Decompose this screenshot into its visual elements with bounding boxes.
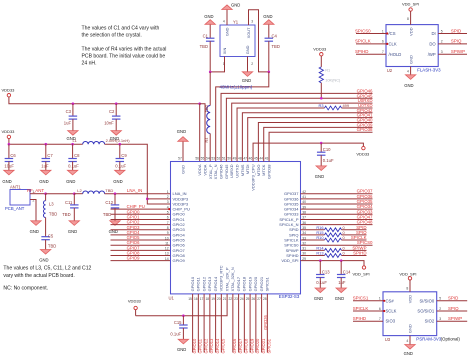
wire: VDD33 rail 2 right to U1 VDD3P3 — [105, 144, 171, 204]
svg-text:GPIO38: GPIO38 — [266, 164, 271, 179]
svg-text:FLASH-3V3: FLASH-3V3 — [417, 67, 441, 72]
node: C3 junction — [72, 102, 75, 105]
svg-text:(Optional): (Optional) — [441, 336, 461, 341]
node: C13 junction — [319, 259, 322, 262]
svg-text:GPIO26: GPIO26 — [263, 314, 268, 330]
wire+net label GPIO4 (U1 pin 9) — [111, 234, 171, 236]
svg-text:SPICS1: SPICS1 — [267, 338, 272, 353]
svg-text:46: 46 — [249, 157, 253, 161]
wire+net label SPID from U3 pin 5 — [437, 300, 468, 302]
svg-text:DO: DO — [429, 41, 436, 46]
svg-text:/WP: /WP — [428, 52, 436, 57]
svg-text:GPIO12: GPIO12 — [203, 338, 208, 354]
svg-text:17: 17 — [200, 297, 204, 301]
svg-text:VDD_SPI: VDD_SPI — [353, 271, 370, 276]
svg-text:GND: GND — [177, 129, 186, 134]
svg-text:40MHz(±10ppm): 40MHz(±10ppm) — [220, 85, 253, 90]
wire GPIO41 from U1 to net label — [248, 118, 373, 162]
svg-text:44: 44 — [259, 157, 263, 161]
svg-text:the selection of the crystal.: the selection of the crystal. — [82, 32, 142, 38]
svg-text:12: 12 — [165, 247, 169, 251]
wire: R4 to U1 XTAL_P — [209, 134, 211, 162]
node: VDD3P3 junction — [146, 198, 149, 201]
svg-text:8: 8 — [167, 226, 169, 230]
capacitor C5 — [41, 236, 50, 238]
svg-text:VDD33: VDD33 — [2, 129, 16, 134]
capacitor C14 — [340, 261, 342, 275]
resistor R3 499 — [325, 106, 342, 110]
wire: VDD_SPI to U2 VDD pin 8 — [410, 11, 412, 24]
wire GPIO47 from U1 pin 37 — [301, 218, 373, 220]
svg-text:GPIO14: GPIO14 — [213, 276, 218, 291]
power VDD33 (at C10) — [362, 146, 365, 149]
svg-text:/HOLD: /HOLD — [389, 52, 402, 57]
svg-text:VDDA: VDDA — [197, 164, 202, 175]
svg-text:SPICS1: SPICS1 — [353, 296, 369, 301]
svg-text:VDD: VDD — [408, 27, 413, 36]
capacitor C11 (shunt) — [73, 194, 75, 205]
node: U2 /CS pin dot — [386, 32, 388, 34]
svg-text:SIO2: SIO2 — [425, 319, 435, 324]
svg-text:3: 3 — [167, 200, 169, 204]
svg-text:GPIO13: GPIO13 — [207, 276, 212, 291]
svg-text:GPIO9: GPIO9 — [173, 258, 186, 263]
svg-text:22: 22 — [228, 297, 232, 301]
svg-text:28: 28 — [263, 297, 267, 301]
svg-text:SO/SIO1: SO/SIO1 — [417, 309, 434, 314]
svg-text:21: 21 — [223, 297, 227, 301]
svg-text:C8: C8 — [74, 153, 80, 158]
wire: VDD33 rail 2 left — [9, 139, 83, 145]
svg-text:GND: GND — [39, 258, 48, 263]
svg-text:27: 27 — [257, 297, 261, 301]
wire SPICS0 from U1 pin 32 — [301, 244, 373, 246]
svg-text:VDD_SPI: VDD_SPI — [402, 2, 419, 7]
wire: U1 VDDA pin 55 elbow — [200, 104, 205, 162]
svg-text:1: 1 — [167, 190, 169, 194]
svg-text:C5: C5 — [48, 234, 54, 239]
svg-text:10: 10 — [165, 236, 169, 240]
svg-text:GND: GND — [39, 179, 48, 184]
svg-text:C7: C7 — [47, 153, 53, 158]
ground (crystal pin2, down) — [242, 72, 252, 77]
capacitor C1 — [209, 24, 211, 38]
svg-text:GND: GND — [404, 83, 413, 88]
svg-text:10K(NC): 10K(NC) — [325, 77, 341, 82]
svg-text:GPIO13: GPIO13 — [209, 338, 214, 354]
svg-text:25: 25 — [246, 297, 250, 301]
wire VDD_SPI from U1 pin 29 — [301, 261, 365, 266]
svg-text:43: 43 — [265, 157, 269, 161]
svg-text:8: 8 — [407, 17, 409, 21]
svg-text:13: 13 — [165, 252, 169, 256]
node: C14 junction — [340, 259, 343, 262]
wire SPICLK from U1 pin 33 — [301, 239, 325, 241]
capacitor C2 — [115, 104, 117, 116]
svg-text:GPIO19: GPIO19 — [248, 276, 253, 291]
ground (U1 GND pin 57, up) — [182, 141, 184, 161]
svg-text:C4: C4 — [272, 34, 278, 39]
capacitor C8 — [72, 144, 74, 158]
svg-text:2: 2 — [439, 307, 441, 311]
wire GPIO33 from U1 pin 38 — [301, 213, 373, 215]
node: C2 junction — [115, 102, 118, 105]
wire U1 bottom pin 22 stub — [232, 294, 234, 353]
wire+net label SPICS1 to U3 pin 1 — [353, 300, 383, 302]
svg-text:VDDA: VDDA — [202, 164, 207, 175]
ground (C13) — [315, 288, 325, 293]
power VDD_SPI (U1) — [362, 266, 365, 269]
wire GPIO45 from U1 to net label — [226, 98, 372, 161]
svg-text:GND: GND — [2, 179, 11, 184]
svg-text:RF_ANT: RF_ANT — [27, 188, 44, 193]
svg-text:VDD33: VDD33 — [313, 46, 327, 51]
wire U1 bottom pin 15 stub — [192, 294, 194, 353]
node: R1 to GPIO45 junction — [320, 97, 323, 100]
svg-text:PSRAM-3V3: PSRAM-3V3 — [416, 336, 441, 341]
wire+net label SPIHD to U3 pin 7 — [353, 320, 383, 322]
svg-text:GPIO11: GPIO11 — [196, 276, 201, 291]
svg-text:SPICS1: SPICS1 — [265, 276, 270, 291]
inductor L1 — [83, 141, 105, 144]
ground (C11) — [69, 221, 79, 226]
svg-text:GPIO45: GPIO45 — [224, 164, 229, 179]
svg-text:GPIO18: GPIO18 — [244, 338, 249, 354]
svg-text:20: 20 — [217, 297, 221, 301]
wire SPIWP from U1 pin 31 — [301, 249, 325, 251]
wire: U1 VDD3P3_CPU to VDD33 — [253, 143, 363, 161]
wire: Y1 pin3 XOUT loop — [249, 10, 269, 72]
svg-text:SPIQ: SPIQ — [451, 39, 462, 44]
svg-text:TBD: TBD — [105, 188, 113, 193]
svg-text:SPICLK: SPICLK — [353, 306, 369, 311]
wire U0RXD from U1 to net label — [232, 103, 373, 161]
ground (C12) — [110, 221, 120, 226]
svg-text:TBD: TBD — [205, 104, 209, 112]
svg-text:GND: GND — [204, 14, 213, 19]
ground (C1 top, up) — [205, 20, 215, 25]
capacitor C12 (shunt) — [114, 194, 116, 205]
wire: Y1 pin2 to GND — [247, 57, 249, 72]
svg-text:GND: GND — [408, 55, 413, 64]
wire GPIO34 from U1 pin 39 — [301, 208, 373, 210]
IC U3 PSRAM box — [383, 292, 437, 336]
svg-text:50: 50 — [227, 157, 231, 161]
svg-text:SPIHD: SPIHD — [353, 251, 366, 256]
svg-text:TBD: TBD — [272, 44, 280, 49]
wire+net label SPICS0 to U2 pin 1 — [356, 33, 386, 35]
svg-text:XTAL_N: XTAL_N — [213, 164, 218, 179]
wire+net label GPIO8 (U1 pin 13) — [111, 255, 171, 257]
svg-text:C6: C6 — [10, 153, 16, 158]
svg-text:15: 15 — [188, 297, 192, 301]
svg-text:14: 14 — [165, 257, 169, 261]
node: U2 CLK pin dot — [386, 43, 388, 45]
svg-text:GPIO16: GPIO16 — [232, 338, 237, 354]
svg-text:C9: C9 — [121, 153, 127, 158]
wire+net label CHIP_PU (U1 pin 4) — [111, 208, 171, 210]
svg-text:CLK: CLK — [389, 41, 397, 46]
svg-text:7: 7 — [379, 317, 381, 321]
svg-text:GND: GND — [263, 14, 272, 19]
svg-text:L3: L3 — [49, 202, 54, 207]
capacitor C3 — [72, 104, 74, 116]
wire GPIO46 from U1 to net label — [221, 93, 372, 161]
svg-text:9: 9 — [167, 231, 169, 235]
svg-text:5: 5 — [441, 29, 443, 33]
capacitor C13 — [319, 261, 321, 275]
wire U0TXD from U1 to net label — [237, 108, 324, 162]
wire U1 bottom pin 16 stub — [197, 294, 199, 353]
svg-text:0.1uF: 0.1uF — [323, 158, 334, 163]
wire GPIO40 from U1 to net label — [258, 123, 372, 162]
wire GPIO38 from U1 to net label — [269, 132, 372, 161]
ground (C5) — [40, 250, 50, 255]
IC U1 ESP32-S3 box — [171, 162, 301, 294]
svg-text:XIN: XIN — [222, 48, 227, 55]
svg-text:18: 18 — [205, 297, 209, 301]
wire SPIHD from U1 pin 30 — [301, 255, 325, 257]
svg-text:R13: R13 — [316, 251, 323, 256]
wire+net label GPIO0 (U1 pin 5) — [111, 213, 171, 215]
svg-text:U3: U3 — [385, 337, 391, 342]
svg-text:MTMS: MTMS — [240, 164, 245, 176]
svg-text:C13: C13 — [322, 270, 330, 275]
wire+net label SPIWP from U3 pin 3 — [437, 320, 468, 322]
svg-text:GPIO18: GPIO18 — [242, 276, 247, 291]
wire: Y1 pin4 to GND — [226, 10, 228, 26]
svg-text:MTDI: MTDI — [245, 164, 250, 174]
wire U1 bottom pin 26 stub — [255, 294, 257, 353]
svg-text:54: 54 — [206, 157, 210, 161]
wire: Y1 pin1 XIN — [210, 57, 224, 72]
svg-text:CS#: CS# — [386, 298, 395, 303]
node: XOUT junction — [268, 71, 271, 74]
svg-text:TBD: TBD — [200, 44, 208, 49]
svg-text:2: 2 — [251, 62, 253, 66]
svg-text:GND: GND — [231, 3, 240, 8]
svg-text:0.1uF: 0.1uF — [170, 331, 181, 336]
ground (crystal pin4, up) — [222, 5, 232, 10]
node: U3 SCLK pin dot — [383, 310, 385, 312]
wire+net label SPIQ from U2 pin 2 — [438, 43, 467, 45]
wire U1 bottom pin 18 stub — [209, 294, 211, 353]
svg-text:6: 6 — [167, 216, 169, 220]
svg-text:Y1: Y1 — [233, 19, 239, 24]
svg-text:2: 2 — [167, 195, 169, 199]
svg-text:2: 2 — [441, 40, 443, 44]
wire: U1 VDD3P3 pin2 stub — [147, 198, 170, 200]
inductor L3 (shunt) — [45, 194, 47, 201]
svg-text:52: 52 — [217, 157, 221, 161]
svg-text:499: 499 — [343, 103, 350, 108]
capacitor C9 — [119, 144, 121, 158]
svg-text:U1: U1 — [169, 296, 175, 301]
svg-text:53: 53 — [211, 157, 215, 161]
svg-text:SIO3: SIO3 — [386, 319, 396, 324]
wire: U1 VDDA pin 56 stub — [199, 104, 201, 162]
svg-text:VDD3P3_CPU: VDD3P3_CPU — [250, 164, 255, 190]
ground (C14) — [336, 288, 346, 293]
wire U1 bottom pin 28 stub — [266, 294, 268, 353]
svg-text:49: 49 — [233, 157, 237, 161]
svg-text:GND: GND — [242, 78, 251, 83]
node: C8 junction — [71, 143, 74, 146]
svg-text:SI/SIO0: SI/SIO0 — [420, 298, 435, 303]
svg-text:GPIO20: GPIO20 — [255, 338, 260, 354]
svg-text:L2: L2 — [77, 188, 82, 193]
svg-text:ESP32-S3: ESP32-S3 — [279, 294, 300, 299]
svg-text:GND: GND — [180, 165, 185, 174]
svg-text:The values of C1 and C4 vary w: The values of C1 and C4 vary with — [82, 25, 160, 31]
node: CHIP_PU pin dot — [168, 208, 170, 210]
svg-text:R3: R3 — [319, 103, 324, 108]
svg-text:SPIHD: SPIHD — [353, 316, 366, 321]
svg-text:/CS: /CS — [389, 31, 396, 36]
wire+net label SPID from U2 pin 5 — [438, 33, 467, 35]
svg-text:GND: GND — [113, 179, 122, 184]
svg-text:GND: GND — [177, 347, 186, 352]
svg-text:LNA_IN: LNA_IN — [127, 188, 142, 193]
wire: VDD33 rail 1 — [9, 97, 200, 104]
ground (U3) — [405, 345, 415, 350]
svg-text:26: 26 — [251, 297, 255, 301]
node: L3 junction — [44, 192, 47, 195]
wire: C1 bottom to XIN junction — [209, 41, 211, 72]
svg-text:0.1uF: 0.1uF — [115, 164, 126, 169]
wire: XOUT to U1 XTAL_N — [216, 72, 269, 162]
svg-text:PCB board. The initial value c: PCB board. The initial value could be — [82, 53, 166, 59]
ground (ANT1) — [31, 221, 41, 226]
svg-text:TBD: TBD — [49, 212, 57, 217]
svg-text:R1: R1 — [325, 67, 330, 72]
svg-text:PCB_ANT: PCB_ANT — [5, 206, 25, 211]
svg-text:11: 11 — [165, 241, 169, 245]
svg-text:R10: R10 — [316, 235, 324, 240]
svg-text:56: 56 — [195, 157, 199, 161]
wire: U3 GND pin 4 to ground — [409, 336, 411, 345]
wire U1 bottom pin 25 stub — [249, 294, 251, 353]
wire SPIQ from U1 pin 34 — [301, 234, 325, 236]
svg-text:4: 4 — [407, 70, 409, 74]
svg-text:C2: C2 — [109, 109, 115, 114]
wire U1 bottom pin 27 stub — [261, 294, 263, 353]
svg-text:DI: DI — [432, 31, 436, 36]
svg-text:VDD_SPI: VDD_SPI — [399, 271, 416, 276]
wire VDD3P3_RTC elbow to VDD33 rail — [136, 294, 228, 316]
ground (U2) — [405, 75, 415, 80]
capacitor C4 — [268, 24, 270, 38]
svg-text:GND: GND — [66, 179, 75, 184]
svg-text:GND: GND — [225, 27, 230, 36]
svg-text:GPIO38: GPIO38 — [357, 127, 373, 132]
svg-text:4: 4 — [167, 205, 169, 209]
svg-text:1uF: 1uF — [64, 121, 72, 126]
crystal Y1 box — [220, 25, 255, 57]
wire: C11 to L2 — [74, 193, 82, 195]
svg-text:XTAL_32K_N: XTAL_32K_N — [230, 267, 235, 291]
node: C15 junction — [182, 314, 185, 317]
svg-text:6: 6 — [382, 40, 384, 44]
wire+net label GPIO1 (U1 pin 6) — [111, 218, 171, 220]
svg-text:VDD3P3_RTC: VDD3P3_RTC — [219, 265, 224, 291]
ground (C15) — [178, 339, 188, 344]
svg-text:GPIO20: GPIO20 — [253, 276, 258, 291]
node: C6 junction — [8, 143, 11, 146]
svg-text:GND: GND — [404, 351, 413, 355]
ground (C10) — [316, 166, 326, 171]
svg-text:SPICLK: SPICLK — [355, 39, 371, 44]
wire: RF_ANT to C11 — [46, 193, 75, 195]
node: U3 CS# pin dot — [383, 300, 385, 302]
wire: VDD_SPI to U3 VDD pin 8 — [409, 280, 411, 292]
wire U1 bottom pin 17 stub — [203, 294, 205, 353]
svg-text:GPIO9: GPIO9 — [127, 256, 140, 261]
svg-text:45: 45 — [254, 157, 258, 161]
svg-text:The values of L3, C5, C11, L2: The values of L3, C5, C11, L2 and C12 — [3, 266, 91, 272]
svg-text:1uF: 1uF — [338, 280, 346, 285]
svg-text:5: 5 — [167, 211, 169, 215]
svg-text:GND: GND — [314, 296, 323, 301]
svg-text:VDD33: VDD33 — [356, 152, 370, 157]
svg-text:3: 3 — [251, 20, 253, 24]
wire GPIO35 from U1 pin 40 — [301, 203, 373, 205]
svg-text:vary with the actual PCB board: vary with the actual PCB board. — [3, 273, 74, 279]
wire GPIO39 from U1 to net label — [264, 127, 373, 161]
svg-text:GPIO21: GPIO21 — [261, 338, 266, 354]
svg-text:2.0nH(0.1nH): 2.0nH(0.1nH) — [106, 138, 131, 143]
svg-text:MTDO: MTDO — [256, 165, 261, 177]
svg-text:3: 3 — [439, 317, 441, 321]
svg-text:GPIO17: GPIO17 — [238, 338, 243, 354]
inductor L2 (series) — [83, 191, 105, 194]
svg-text:16: 16 — [194, 297, 198, 301]
wire+net label SPIHD to U2 pin 7 — [356, 53, 386, 55]
svg-text:GPIO10: GPIO10 — [192, 338, 197, 354]
wire+net label GPIO7 (U1 pin 12) — [111, 249, 171, 251]
svg-text:GND: GND — [30, 229, 39, 234]
wire: C4 bottom to XOUT junction — [268, 41, 270, 72]
svg-text:GND: GND — [315, 174, 324, 179]
wire: L2 to U1 LNA_IN — [105, 193, 171, 195]
wire: XIN down to R4 — [209, 72, 211, 106]
node: C12 junction — [114, 192, 117, 195]
svg-text:NC: No component.: NC: No component. — [3, 286, 48, 292]
svg-text:5: 5 — [439, 297, 441, 301]
svg-text:10nF: 10nF — [104, 121, 114, 126]
svg-text:GPIO17: GPIO17 — [236, 276, 241, 291]
svg-text:SCLK: SCLK — [386, 309, 397, 314]
ground (C2) — [111, 131, 121, 136]
svg-text:GPIO46: GPIO46 — [218, 164, 223, 179]
svg-text:7: 7 — [382, 50, 384, 54]
svg-text:C11: C11 — [65, 200, 73, 205]
wire: L3 to C5 — [45, 218, 47, 237]
wire SPID from U1 pin 35 — [301, 229, 325, 231]
svg-text:C14: C14 — [343, 270, 351, 275]
svg-text:6: 6 — [379, 307, 381, 311]
svg-text:R4: R4 — [205, 138, 209, 143]
svg-text:XOUT: XOUT — [246, 27, 251, 38]
svg-text:XTAL_P: XTAL_P — [208, 164, 213, 179]
svg-text:GPIO21: GPIO21 — [259, 276, 264, 291]
svg-text:SPID: SPID — [448, 296, 458, 301]
svg-text:0.1uF: 0.1uF — [316, 280, 327, 285]
wire GPIO37 from U1 pin 42 — [301, 193, 373, 195]
ground (C4 top, up) — [264, 20, 274, 25]
node: C7 junction — [45, 143, 48, 146]
capacitor C6 — [8, 144, 10, 158]
